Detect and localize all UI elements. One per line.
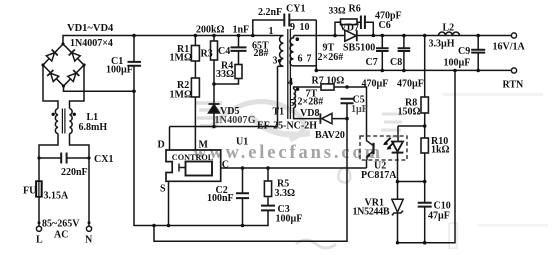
svg-text:L2: L2	[443, 23, 455, 34]
svg-text:1N4007G: 1N4007G	[215, 115, 256, 126]
svg-text:100nF: 100nF	[207, 193, 234, 204]
svg-text:5: 5	[290, 98, 295, 109]
svg-text:2.2nF: 2.2nF	[258, 7, 282, 18]
svg-text:C: C	[222, 160, 229, 171]
svg-text:CY1: CY1	[286, 4, 305, 15]
svg-text:T1: T1	[273, 107, 285, 118]
svg-text:C7: C7	[366, 57, 378, 68]
svg-text:100µF: 100µF	[444, 58, 471, 69]
svg-text:1MΩ: 1MΩ	[170, 90, 192, 101]
svg-text:1kΩ: 1kΩ	[431, 145, 450, 156]
svg-text:FU: FU	[23, 186, 36, 197]
svg-text:200kΩ: 200kΩ	[196, 25, 225, 36]
svg-text:3.3Ω: 3.3Ω	[275, 188, 296, 199]
svg-text:33Ω: 33Ω	[216, 69, 234, 80]
svg-text:6: 6	[298, 54, 303, 65]
svg-text:1µF: 1µF	[351, 104, 368, 115]
svg-text:D: D	[158, 140, 165, 151]
svg-text:3.15A: 3.15A	[44, 191, 70, 202]
svg-text:VD1~VD4: VD1~VD4	[67, 23, 114, 34]
svg-text:3: 3	[273, 56, 278, 67]
svg-text:BAV20: BAV20	[315, 130, 345, 141]
svg-text:150Ω: 150Ω	[398, 107, 421, 118]
svg-text:220nF: 220nF	[61, 167, 88, 178]
svg-text:1: 1	[269, 26, 274, 37]
svg-text:1MΩ: 1MΩ	[170, 53, 192, 64]
svg-text:C4: C4	[218, 46, 230, 57]
svg-text:4: 4	[288, 77, 293, 88]
svg-text:U1: U1	[236, 137, 248, 148]
svg-text:PC817A: PC817A	[361, 170, 397, 181]
svg-text:SB5100: SB5100	[343, 43, 375, 54]
svg-text:85~265V: 85~265V	[42, 219, 80, 230]
svg-text:100µF: 100µF	[106, 65, 133, 76]
svg-text:28#: 28#	[254, 48, 269, 59]
svg-text:R6: R6	[349, 4, 361, 15]
svg-text:EF-25-NC-2H: EF-25-NC-2H	[257, 121, 317, 132]
svg-text:C8: C8	[390, 57, 402, 68]
svg-text:R7 10Ω: R7 10Ω	[312, 76, 345, 87]
svg-text:1N4007×4: 1N4007×4	[70, 38, 113, 49]
svg-text:S: S	[160, 184, 166, 195]
svg-text:CONTROL: CONTROL	[172, 153, 214, 162]
svg-text:1N5244B: 1N5244B	[353, 207, 390, 218]
svg-text:100µF: 100µF	[276, 214, 303, 225]
svg-text:M: M	[199, 140, 209, 151]
svg-text:47µF: 47µF	[428, 211, 450, 222]
svg-text:6.8mH: 6.8mH	[79, 122, 108, 133]
svg-text:33Ω: 33Ω	[329, 7, 347, 17]
svg-text:2×26#: 2×26#	[318, 52, 344, 63]
svg-text:RTN: RTN	[503, 80, 525, 91]
svg-text:VD8: VD8	[300, 108, 319, 119]
svg-text:16V/1A: 16V/1A	[493, 42, 526, 53]
svg-text:7: 7	[307, 54, 312, 65]
svg-text:N: N	[85, 235, 93, 246]
svg-text:9: 9	[290, 22, 295, 33]
svg-text:3.3µH: 3.3µH	[429, 39, 455, 50]
svg-text:VD7: VD7	[340, 23, 359, 34]
svg-text:AC: AC	[54, 230, 68, 241]
svg-text:L: L	[36, 235, 43, 246]
svg-text:C9: C9	[458, 46, 470, 57]
svg-text:R3: R3	[201, 49, 213, 60]
svg-text:1nF: 1nF	[233, 25, 250, 36]
svg-text:10: 10	[300, 22, 310, 33]
svg-text:CX1: CX1	[94, 154, 113, 165]
svg-text:C6: C6	[379, 20, 391, 31]
svg-text:470µF: 470µF	[362, 79, 389, 90]
svg-text:470µF: 470µF	[397, 79, 424, 90]
svg-text:2×28#: 2×28#	[298, 97, 324, 108]
